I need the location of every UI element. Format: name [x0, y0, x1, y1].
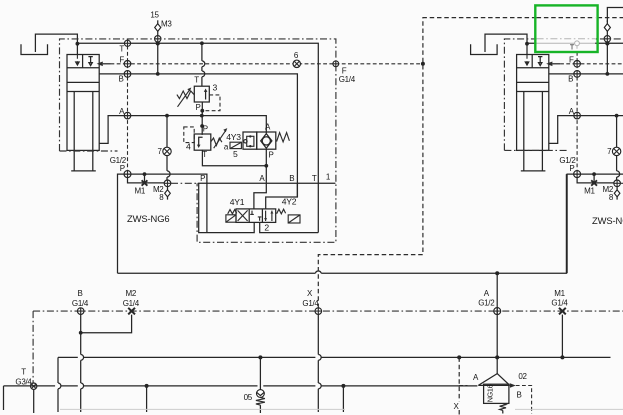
svg-text:T: T [570, 45, 575, 52]
svg-text:B: B [289, 174, 294, 183]
svg-text:B: B [77, 289, 82, 298]
svg-text:M2: M2 [126, 289, 137, 298]
svg-text:M3: M3 [161, 19, 172, 28]
svg-text:P: P [195, 103, 200, 112]
svg-text:G1/2: G1/2 [478, 298, 495, 307]
svg-text:T: T [21, 367, 26, 376]
svg-text:4Y3: 4Y3 [226, 132, 241, 142]
svg-text:T: T [194, 76, 199, 85]
svg-text:T: T [202, 150, 207, 159]
svg-text:G1/4: G1/4 [123, 299, 140, 308]
svg-text:15: 15 [150, 10, 159, 19]
svg-text:G3/4: G3/4 [15, 377, 32, 386]
svg-text:P: P [200, 174, 205, 183]
svg-text:NG16: NG16 [486, 384, 495, 402]
svg-text:02: 02 [518, 372, 527, 381]
svg-text:05: 05 [244, 393, 253, 402]
svg-text:4Y2: 4Y2 [282, 197, 297, 207]
svg-text:G1/4: G1/4 [302, 299, 319, 308]
svg-text:ZWS-NG6: ZWS-NG6 [127, 213, 170, 224]
svg-text:M1: M1 [554, 289, 565, 298]
svg-text:2: 2 [264, 223, 269, 233]
svg-text:3: 3 [212, 83, 217, 93]
svg-text:P: P [203, 125, 208, 134]
svg-text:G1/4: G1/4 [551, 298, 568, 307]
svg-text:ZWS-NG6: ZWS-NG6 [592, 215, 623, 226]
svg-text:4: 4 [186, 142, 191, 152]
svg-text:P: P [268, 151, 273, 160]
svg-text:T: T [312, 174, 317, 183]
svg-text:4Y1: 4Y1 [230, 197, 245, 207]
svg-text:5: 5 [233, 149, 238, 159]
svg-text:G1/4: G1/4 [339, 75, 356, 84]
svg-text:B: B [516, 391, 521, 400]
svg-text:G1/4: G1/4 [72, 299, 89, 308]
